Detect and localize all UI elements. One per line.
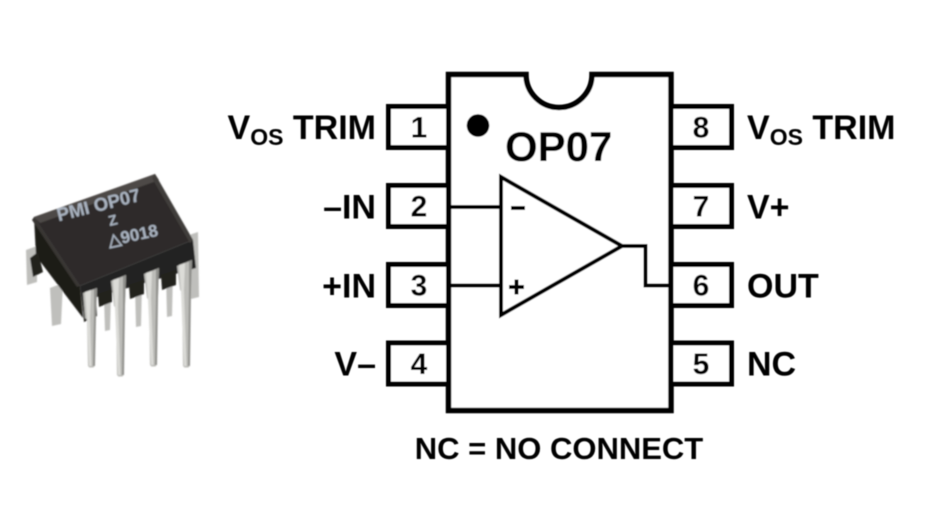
svg-text:4: 4 <box>411 348 428 381</box>
svg-text:8: 8 <box>693 112 710 145</box>
svg-text:VOS TRIM: VOS TRIM <box>747 109 895 150</box>
svg-text:OP07: OP07 <box>505 123 612 170</box>
svg-text:7: 7 <box>693 191 710 224</box>
svg-text:–IN: –IN <box>323 189 376 227</box>
svg-text:V–: V– <box>334 346 376 384</box>
svg-text:NC: NC <box>747 346 796 384</box>
svg-text:5: 5 <box>693 348 710 381</box>
svg-text:NC = NO CONNECT: NC = NO CONNECT <box>415 431 704 466</box>
svg-text:3: 3 <box>411 270 428 303</box>
svg-text:VOS TRIM: VOS TRIM <box>228 109 376 150</box>
svg-text:OUT: OUT <box>747 268 819 306</box>
svg-text:+IN: +IN <box>322 268 376 306</box>
svg-text:1: 1 <box>411 112 428 145</box>
svg-text:V+: V+ <box>747 189 790 227</box>
svg-text:6: 6 <box>693 270 710 303</box>
svg-text:2: 2 <box>411 191 428 224</box>
